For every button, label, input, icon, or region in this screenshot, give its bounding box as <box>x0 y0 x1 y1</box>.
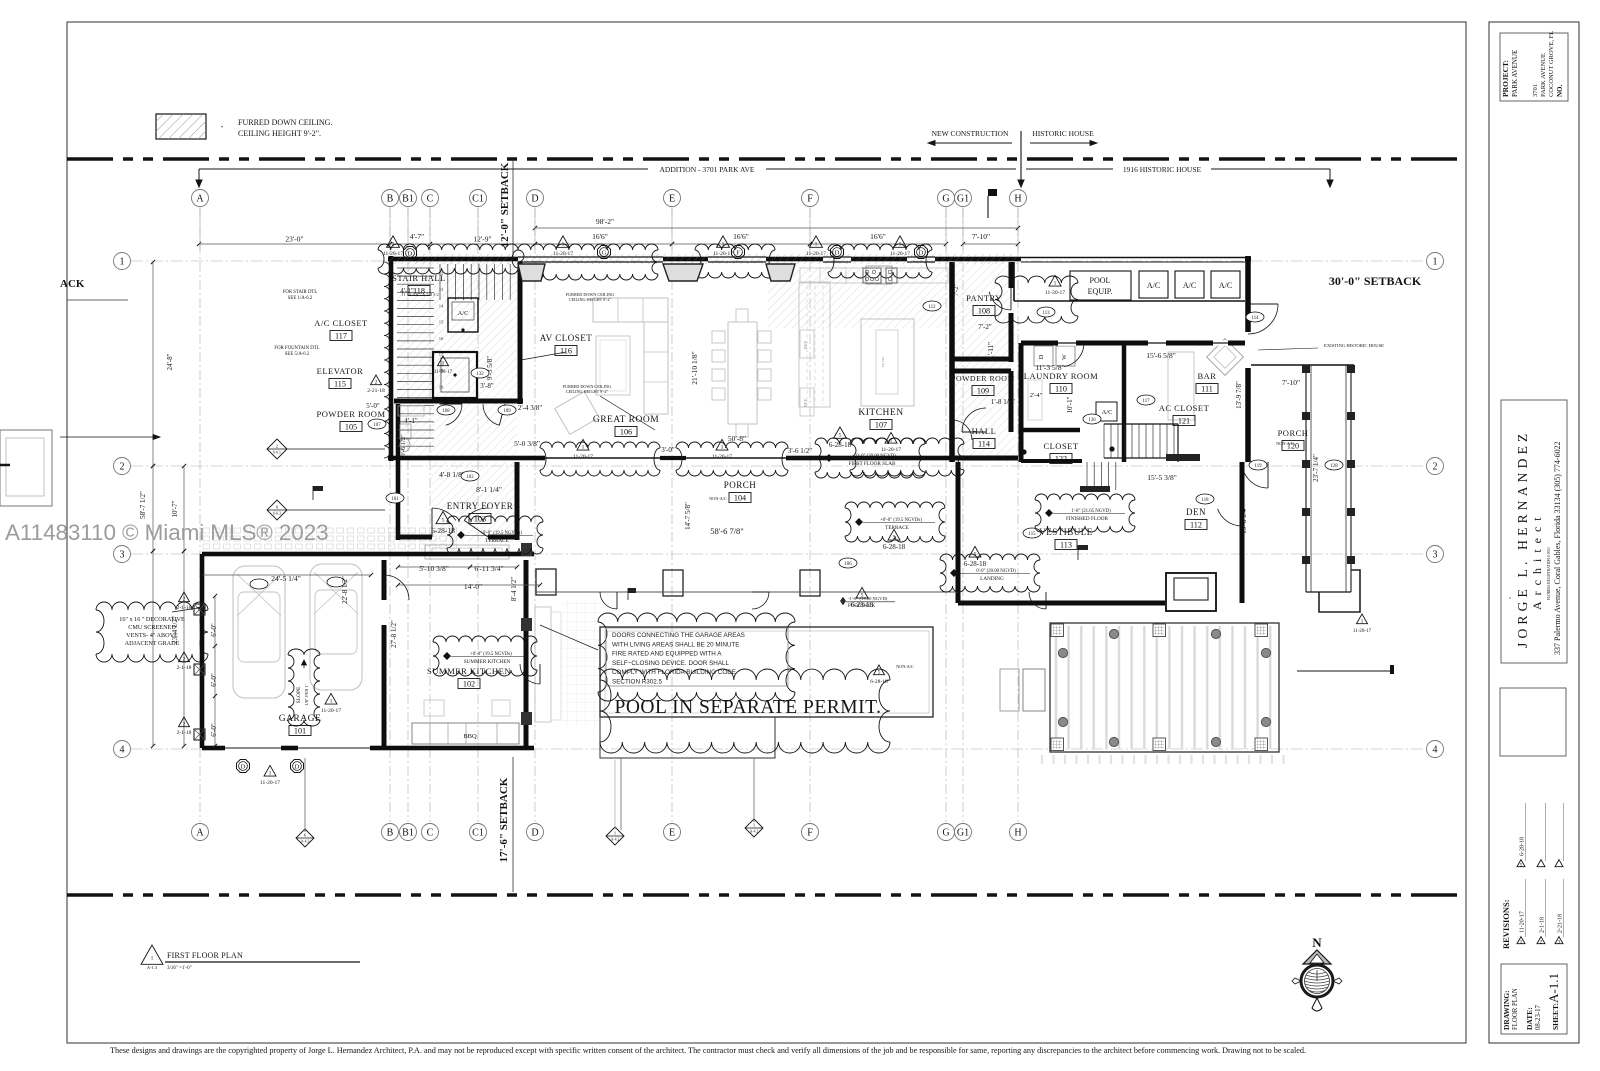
svg-text:112: 112 <box>928 305 936 310</box>
svg-text:A-1.1: A-1.1 <box>1546 973 1561 1003</box>
svg-text:B1: B1 <box>402 193 414 204</box>
svg-text:4: 4 <box>120 744 125 755</box>
svg-text:11-20-17: 11-20-17 <box>434 370 453 375</box>
svg-text:1/8" PER 1': 1/8" PER 1' <box>304 684 309 705</box>
svg-text:SEE 1/A-6.2: SEE 1/A-6.2 <box>288 296 313 301</box>
svg-text:E: E <box>669 827 675 838</box>
svg-text:A: A <box>196 193 204 204</box>
svg-text:11-20-17: 11-20-17 <box>553 251 573 257</box>
svg-text:10'-6 1/2": 10'-6 1/2" <box>400 434 407 460</box>
svg-text:B: B <box>387 193 394 204</box>
svg-text:TERRACE: TERRACE <box>885 525 909 531</box>
svg-text:1: 1 <box>815 242 818 248</box>
svg-text:118: 118 <box>1201 498 1209 503</box>
svg-text:6'-0": 6'-0" <box>210 723 218 737</box>
svg-text:11-20-17: 11-20-17 <box>1045 290 1065 296</box>
svg-text:D: D <box>1039 354 1045 359</box>
svg-text:17'-6" SETBACK: 17'-6" SETBACK <box>498 777 510 862</box>
svg-text:15: 15 <box>439 320 444 325</box>
svg-text:11-20-17: 11-20-17 <box>1353 629 1372 634</box>
svg-text:1: 1 <box>562 242 565 248</box>
svg-text:H: H <box>1014 193 1021 204</box>
svg-text:15'-6 5/8": 15'-6 5/8" <box>1146 351 1176 360</box>
svg-text:A-4.2: A-4.2 <box>750 830 759 834</box>
svg-text:GARAGE: GARAGE <box>279 714 322 724</box>
svg-text:109: 109 <box>977 387 989 396</box>
svg-text:2: 2 <box>120 461 125 472</box>
svg-text:115: 115 <box>1028 532 1036 537</box>
svg-text:C1: C1 <box>472 193 484 204</box>
svg-text:6-28-18: 6-28-18 <box>883 543 906 551</box>
svg-text:337 Palermo Avenue, Coral Gabl: 337 Palermo Avenue, Coral Gables, Florid… <box>1553 441 1562 655</box>
svg-text:D: D <box>241 763 246 770</box>
svg-text:11-20-17: 11-20-17 <box>260 780 280 786</box>
svg-text:ADJACENT GRADE: ADJACENT GRADE <box>125 640 180 647</box>
svg-text:JORGE L. HERNANDEZ: JORGE L. HERNANDEZ <box>1515 430 1530 648</box>
svg-text:NON-A/C: NON-A/C <box>709 496 727 501</box>
svg-text:6-28-18: 6-28-18 <box>431 526 455 535</box>
svg-text:CLOSET: CLOSET <box>1043 441 1078 451</box>
svg-text:EQUIP.: EQUIP. <box>1088 287 1113 296</box>
svg-text:14'-7 5/8": 14'-7 5/8" <box>684 502 692 530</box>
svg-text:DATE:: DATE: <box>1525 1007 1534 1030</box>
svg-text:5: 5 <box>861 593 864 599</box>
svg-text:BBQ: BBQ <box>463 733 477 740</box>
svg-text:CEILING HEIGHT 9'-2": CEILING HEIGHT 9'-2" <box>569 297 612 302</box>
svg-text:POWDER ROOM: POWDER ROOM <box>951 374 1015 383</box>
svg-text:11-20-17: 11-20-17 <box>383 251 403 257</box>
svg-text:15'-5 3/8": 15'-5 3/8" <box>1147 473 1177 482</box>
svg-text:11-20-17: 11-20-17 <box>712 454 732 460</box>
svg-text:TERRACE: TERRACE <box>485 538 509 544</box>
svg-text:1: 1 <box>1054 281 1057 287</box>
svg-text:1: 1 <box>582 445 585 451</box>
svg-text:FIRE RATED AND EQUIPPED WI: FIRE RATED AND EQUIPPED WITH A <box>612 651 722 658</box>
svg-text:2-21-18: 2-21-18 <box>1558 914 1564 933</box>
svg-text:108: 108 <box>978 307 990 316</box>
svg-text:108: 108 <box>442 409 450 414</box>
svg-text:1: 1 <box>269 771 272 777</box>
svg-text:6-28-18: 6-28-18 <box>1520 837 1526 856</box>
svg-text:A-4.2: A-4.2 <box>611 838 620 842</box>
svg-text:114: 114 <box>1251 316 1259 321</box>
svg-text:GREAT ROOM: GREAT ROOM <box>593 415 659 425</box>
svg-text:PROJECT:: PROJECT: <box>1501 60 1510 97</box>
svg-text:1: 1 <box>392 242 395 248</box>
svg-text:16'6": 16'6" <box>733 232 749 241</box>
svg-text:PORCH: PORCH <box>724 480 757 490</box>
svg-text:1: 1 <box>330 699 333 705</box>
svg-text:113: 113 <box>1060 541 1072 550</box>
svg-text:1: 1 <box>899 242 902 248</box>
svg-text:4'-1": 4'-1" <box>404 417 418 425</box>
svg-text:6'-0": 6'-0" <box>210 623 218 637</box>
svg-text:BAR: BAR <box>1198 371 1217 381</box>
svg-text:3'-6 1/2": 3'-6 1/2" <box>788 447 812 455</box>
svg-text:F: F <box>736 249 740 256</box>
svg-text:14: 14 <box>439 303 444 308</box>
svg-text:2-1-18: 2-1-18 <box>177 730 192 736</box>
svg-text:113: 113 <box>1042 311 1050 316</box>
svg-text:5: 5 <box>442 518 445 524</box>
svg-text:PARK AVENUE: PARK AVENUE <box>1540 53 1547 97</box>
svg-text:11-20-17: 11-20-17 <box>881 447 901 453</box>
svg-text:A-1.3: A-1.3 <box>147 965 158 970</box>
svg-text:PANTRY: PANTRY <box>966 293 1002 303</box>
svg-text:104: 104 <box>734 494 746 503</box>
svg-text:16'6": 16'6" <box>870 232 886 241</box>
svg-text:132: 132 <box>476 372 484 377</box>
svg-text:G1: G1 <box>957 827 969 838</box>
svg-text:ACK: ACK <box>60 278 85 290</box>
svg-text:POWDER ROOM: POWDER ROOM <box>316 409 385 419</box>
svg-text:1: 1 <box>753 823 755 828</box>
svg-text:1916 HISTORIC HOUSE: 1916 HISTORIC HOUSE <box>1123 165 1202 174</box>
svg-text:D: D <box>531 193 538 204</box>
svg-text:3: 3 <box>1433 549 1438 560</box>
svg-text:SLOPE: SLOPE <box>296 686 302 703</box>
svg-text:8'-1 1/4": 8'-1 1/4" <box>476 485 502 494</box>
svg-text:117: 117 <box>335 332 347 341</box>
svg-text:6-28-18: 6-28-18 <box>870 679 888 685</box>
svg-text:14'-0": 14'-0" <box>464 582 482 591</box>
svg-text:DEN: DEN <box>1186 507 1206 517</box>
svg-text:2-1-18: 2-1-18 <box>1540 917 1546 933</box>
svg-text:23'-7 1/4": 23'-7 1/4" <box>1312 454 1320 482</box>
svg-text:TR-600: TR-600 <box>881 356 885 367</box>
svg-text:118: 118 <box>413 287 425 296</box>
svg-text:22'-8 1/2": 22'-8 1/2" <box>341 576 349 604</box>
svg-text:2-1-18: 2-1-18 <box>177 665 192 671</box>
svg-text:1: 1 <box>442 361 445 367</box>
svg-text:CEILING HEIGHT 9'-2": CEILING HEIGHT 9'-2" <box>566 389 609 394</box>
svg-text:1: 1 <box>151 956 154 962</box>
svg-text:101: 101 <box>294 727 306 736</box>
svg-text:AC CLOSET: AC CLOSET <box>1159 403 1210 413</box>
svg-text:116: 116 <box>560 347 572 356</box>
svg-text:5'-0 3/8": 5'-0 3/8" <box>514 439 540 448</box>
svg-text:NON-A/C: NON-A/C <box>896 664 914 669</box>
svg-text:SELF−CLOSING DEVICE. DOOR S: SELF−CLOSING DEVICE. DOOR SHALL <box>612 660 730 667</box>
svg-text:3'-8": 3'-8" <box>480 382 494 390</box>
svg-text:10'-7": 10'-7" <box>171 500 179 517</box>
svg-text:ELEVATOR: ELEVATOR <box>317 366 364 376</box>
svg-text:D: D <box>295 763 300 770</box>
svg-text:AV CLOSET: AV CLOSET <box>540 333 592 343</box>
svg-text:2: 2 <box>183 722 186 728</box>
svg-text:121: 121 <box>1178 417 1190 426</box>
svg-text:5'-10 3/8": 5'-10 3/8" <box>419 564 449 573</box>
svg-text:13'-9 7/8": 13'-9 7/8" <box>1235 381 1243 409</box>
svg-text:58'-7 1/2": 58'-7 1/2" <box>139 491 147 519</box>
svg-text:27'-8 1/2": 27'-8 1/2" <box>390 620 398 648</box>
svg-text:SUMMER KITCHEN: SUMMER KITCHEN <box>464 659 511 665</box>
svg-text:11-20-17: 11-20-17 <box>890 251 910 257</box>
svg-text:2: 2 <box>1433 461 1438 472</box>
svg-text:G: G <box>942 827 949 838</box>
svg-text:11-20-17: 11-20-17 <box>573 454 593 460</box>
svg-text:114: 114 <box>978 440 990 449</box>
svg-text:101: 101 <box>391 497 399 502</box>
svg-text:STAIR HALL: STAIR HALL <box>392 273 446 283</box>
svg-text:3'-0": 3'-0" <box>661 446 675 454</box>
svg-text:136: 136 <box>1088 418 1096 423</box>
svg-text:VENTS- 4" ABOVE: VENTS- 4" ABOVE <box>126 632 178 639</box>
svg-text:SHEET:: SHEET: <box>1551 1003 1560 1030</box>
svg-text:6-28-18: 6-28-18 <box>851 601 874 609</box>
svg-text:E: E <box>669 193 675 204</box>
svg-text:5: 5 <box>878 670 881 676</box>
svg-text:DRAWING:: DRAWING: <box>1502 990 1511 1030</box>
svg-text:7'-2": 7'-2" <box>953 283 960 296</box>
svg-text:16'6": 16'6" <box>592 232 608 241</box>
svg-text:D: D <box>835 249 840 256</box>
svg-text:Architect: Architect <box>1530 511 1544 610</box>
svg-text:KITCHEN: KITCHEN <box>858 408 903 418</box>
svg-text:COCONUT GROVE, FL: COCONUT GROVE, FL <box>1548 31 1555 97</box>
svg-text:A/C CLOSET: A/C CLOSET <box>314 318 368 328</box>
svg-text:5: 5 <box>1520 863 1523 869</box>
svg-text:21'-10 1/8": 21'-10 1/8" <box>690 351 699 384</box>
svg-text:A/C: A/C <box>458 310 469 317</box>
svg-text:These designs and drawings are: These designs and drawings are the copyr… <box>110 1046 1306 1055</box>
svg-text:N: N <box>1312 935 1322 950</box>
svg-text:D: D <box>531 827 538 838</box>
svg-text:C1: C1 <box>472 827 484 838</box>
svg-text:ADDITION - 3701 PARK AVE: ADDITION - 3701 PARK AVE <box>659 165 754 174</box>
svg-text:58'-6 7/8": 58'-6 7/8" <box>710 526 744 536</box>
svg-text:106: 106 <box>620 428 632 437</box>
svg-text:3701: 3701 <box>1532 84 1539 97</box>
svg-text:98'-2": 98'-2" <box>596 217 614 226</box>
svg-text:7'-10": 7'-10" <box>1282 378 1300 387</box>
svg-text:G1: G1 <box>957 193 969 204</box>
svg-text:11-20-17: 11-20-17 <box>321 708 341 714</box>
svg-text:W: W <box>1062 354 1068 360</box>
svg-text:NEW CONSTRUCTION: NEW CONSTRUCTION <box>932 129 1009 138</box>
svg-text:WITH LIVING AREAS SHALL BE: WITH LIVING AREAS SHALL BE 20 MINUTE <box>612 641 740 648</box>
svg-text:16" x 16 " DECORATIVE: 16" x 16 " DECORATIVE <box>119 616 185 623</box>
svg-text:122: 122 <box>1055 455 1067 464</box>
svg-text:PORCH: PORCH <box>1278 428 1309 438</box>
svg-text:12'-9": 12'-9" <box>473 235 491 244</box>
svg-text:111: 111 <box>1201 385 1213 394</box>
svg-text:1: 1 <box>721 445 724 451</box>
svg-text:F: F <box>807 827 813 838</box>
svg-text:128: 128 <box>1330 464 1338 469</box>
svg-text:FINISHED FLOOR: FINISHED FLOOR <box>1066 516 1108 522</box>
svg-text:11'-11": 11'-11" <box>987 342 995 362</box>
svg-text:1: 1 <box>120 256 125 267</box>
svg-text:8'-4 1/2": 8'-4 1/2" <box>510 577 518 601</box>
svg-text:1: 1 <box>1361 619 1364 625</box>
svg-text:4: 4 <box>1433 744 1438 755</box>
svg-text:-: - <box>221 122 224 131</box>
svg-text:2-21-18: 2-21-18 <box>367 388 385 394</box>
svg-text:2'-4": 2'-4" <box>1030 392 1043 399</box>
svg-text:A/C: A/C <box>1147 281 1160 290</box>
svg-text:1: 1 <box>1520 940 1523 946</box>
svg-text:HISTORIC HOUSE: HISTORIC HOUSE <box>1032 129 1094 138</box>
svg-text:106: 106 <box>844 562 852 567</box>
svg-text:2: 2 <box>276 444 278 449</box>
svg-text:G: G <box>602 249 607 256</box>
svg-text:2: 2 <box>375 380 378 386</box>
svg-text:POOL IN SEPARATE PERMIT.: POOL IN SEPARATE PERMIT. <box>615 697 882 718</box>
svg-text:6-6.3: 6-6.3 <box>273 512 281 516</box>
svg-text:12'-0" SETBACK: 12'-0" SETBACK <box>499 162 511 247</box>
svg-text:B: B <box>387 827 394 838</box>
svg-text:30'-0" SETBACK: 30'-0" SETBACK <box>1329 274 1422 288</box>
svg-text:ENTRY FOYER: ENTRY FOYER <box>447 501 513 511</box>
svg-text:115: 115 <box>334 380 346 389</box>
svg-text:4'-7": 4'-7" <box>410 232 424 241</box>
svg-text:FIRST FLOOR SLAB: FIRST FLOOR SLAB <box>849 461 896 467</box>
svg-text:D: D <box>919 249 924 256</box>
svg-text:6-6.1: 6-6.1 <box>273 451 281 455</box>
svg-text:B1: B1 <box>402 827 414 838</box>
svg-text:1: 1 <box>1433 256 1438 267</box>
svg-text:107: 107 <box>875 421 887 430</box>
svg-text:1'-8 1/2": 1'-8 1/2" <box>991 398 1015 406</box>
svg-text:23'-0": 23'-0" <box>285 235 303 244</box>
svg-text:6'-0": 6'-0" <box>210 673 218 687</box>
svg-text:FIRST FLOOR PLAN: FIRST FLOOR PLAN <box>167 951 243 960</box>
svg-text:15'-8 1/4": 15'-8 1/4" <box>1240 506 1248 534</box>
svg-text:NO.: NO. <box>1556 85 1564 98</box>
svg-text:1: 1 <box>614 831 616 836</box>
svg-text:3: 3 <box>120 549 125 560</box>
svg-text:105: 105 <box>345 423 357 432</box>
svg-text:EXISTING HISTORIC HOUSE: EXISTING HISTORIC HOUSE <box>1324 343 1384 348</box>
svg-text:REVISIONS:: REVISIONS: <box>1501 899 1511 949</box>
svg-text:11-20-17: 11-20-17 <box>713 251 733 257</box>
svg-text:13: 13 <box>439 287 444 292</box>
svg-text:2'-4 3/8": 2'-4 3/8" <box>518 404 542 412</box>
svg-text:117: 117 <box>1142 399 1150 404</box>
svg-text:7'-10": 7'-10" <box>972 232 990 241</box>
svg-text:5: 5 <box>839 433 842 439</box>
svg-text:3: 3 <box>1558 940 1561 946</box>
svg-text:A-4.3: A-4.3 <box>301 840 310 844</box>
svg-text:1: 1 <box>722 242 725 248</box>
svg-text:D: D <box>408 250 413 257</box>
svg-text:LANDING: LANDING <box>980 576 1004 582</box>
svg-text:POOL: POOL <box>1090 276 1111 285</box>
svg-text:C: C <box>427 827 434 838</box>
svg-text:FURRED DOWN CEILING.: FURRED DOWN CEILING. <box>238 118 332 127</box>
svg-text:50'-8": 50'-8" <box>728 434 746 443</box>
svg-text:DOORS CONNECTING THE GARAGE: DOORS CONNECTING THE GARAGE AREAS <box>612 632 745 639</box>
svg-text:LAUNDRY ROOM: LAUNDRY ROOM <box>1024 371 1098 381</box>
svg-text:A/C: A/C <box>1219 281 1232 290</box>
svg-text:6-28-18: 6-28-18 <box>964 560 987 568</box>
svg-text:11-20-17: 11-20-17 <box>806 251 826 257</box>
svg-text:C: C <box>427 193 434 204</box>
svg-text:G: G <box>942 193 949 204</box>
svg-text:6-28-18: 6-28-18 <box>829 441 852 449</box>
svg-text:120: 120 <box>1287 442 1299 451</box>
svg-text:A/C: A/C <box>1102 409 1113 416</box>
svg-text:3/16" =1'-0": 3/16" =1'-0" <box>167 966 192 971</box>
svg-text:110: 110 <box>1055 385 1067 394</box>
svg-text:FLORIDA REGISTRATION # 0063: FLORIDA REGISTRATION # 0063 <box>1547 547 1551 600</box>
svg-text:A11483110 © Miami MLS® 2023: A11483110 © Miami MLS® 2023 <box>5 520 329 545</box>
svg-text:7'-2": 7'-2" <box>978 323 992 331</box>
svg-text:HALL: HALL <box>972 426 997 436</box>
svg-text:109: 109 <box>503 409 511 414</box>
svg-text:4'-1": 4'-1" <box>400 287 414 295</box>
svg-text:102: 102 <box>463 680 475 689</box>
svg-text:16: 16 <box>439 336 444 341</box>
svg-text:10'-1": 10'-1" <box>1066 396 1074 413</box>
svg-text:PARK AVENUE: PARK AVENUE <box>1511 50 1519 97</box>
svg-text:102: 102 <box>466 475 474 480</box>
svg-text:FLOOR PLAN: FLOOR PLAN <box>1512 988 1519 1030</box>
svg-text:24'-8": 24'-8" <box>166 353 174 370</box>
svg-text:SEE 5/A-6.2: SEE 5/A-6.2 <box>285 352 310 357</box>
svg-text:A/C: A/C <box>1183 281 1196 290</box>
svg-text:107: 107 <box>373 423 381 428</box>
svg-text:H: H <box>1014 827 1021 838</box>
svg-text:119: 119 <box>1254 464 1262 469</box>
svg-text:A: A <box>196 827 204 838</box>
svg-text:CMU SCREENED: CMU SCREENED <box>128 624 176 631</box>
svg-text:6'-11 3/4": 6'-11 3/4" <box>474 564 503 573</box>
svg-text:FOR FOUNTAIN DTL: FOR FOUNTAIN DTL <box>274 346 319 351</box>
svg-text:FOR STAIR DTL: FOR STAIR DTL <box>283 290 318 295</box>
svg-text:F: F <box>807 193 813 204</box>
svg-text:11-20-17: 11-20-17 <box>1520 911 1526 933</box>
svg-text:CEILING HEIGHT 9'-2".: CEILING HEIGHT 9'-2". <box>238 129 321 138</box>
svg-text:2: 2 <box>1540 940 1543 946</box>
svg-text:SECTION R302.5: SECTION R302.5 <box>612 679 663 686</box>
svg-text:08-23-17: 08-23-17 <box>1535 1004 1542 1030</box>
svg-text:112: 112 <box>1190 521 1202 530</box>
